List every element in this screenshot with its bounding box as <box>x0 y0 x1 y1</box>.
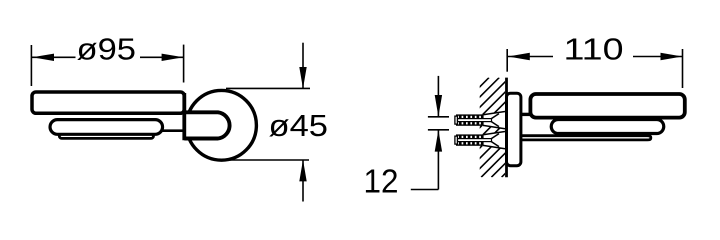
svg-text:ø95: ø95 <box>77 32 137 67</box>
svg-text:12: 12 <box>364 163 399 200</box>
svg-text:ø45: ø45 <box>269 108 329 143</box>
svg-text:110: 110 <box>564 32 624 67</box>
